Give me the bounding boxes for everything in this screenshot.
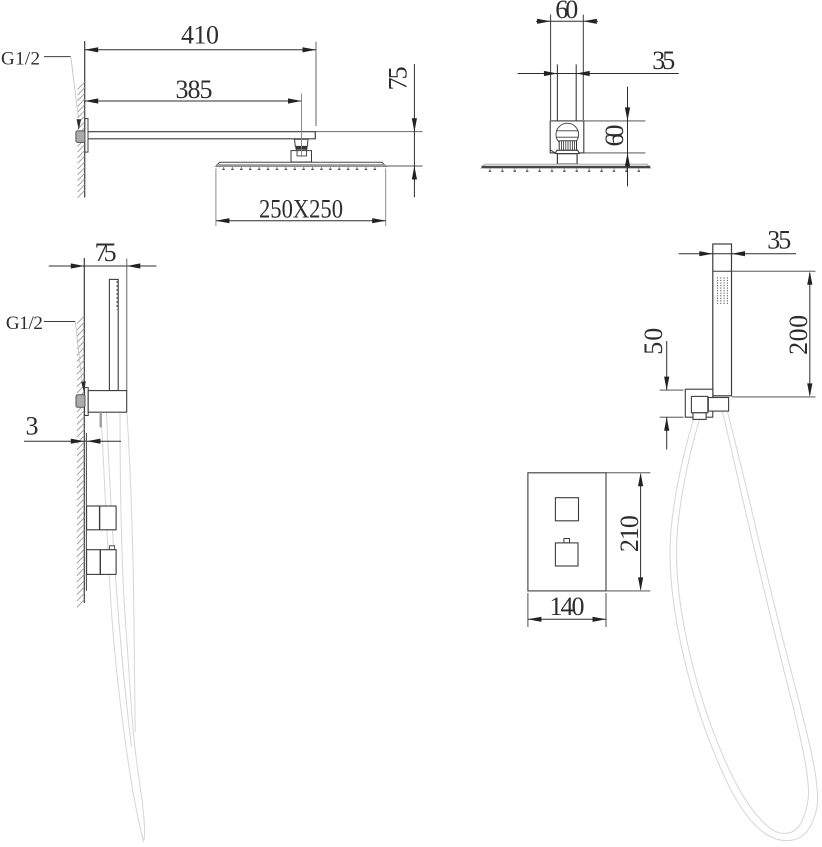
head nozzles (front)	[489, 168, 640, 172]
dimension 50	[666, 341, 668, 450]
dimension 60 extension lines	[551, 15, 584, 121]
svg-text:35: 35	[652, 46, 675, 75]
dimension 410	[85, 49, 316, 51]
holder front face	[691, 396, 707, 412]
dimension 60 (right vertical)	[627, 87, 629, 187]
dimension 3 extension / trim plate edge	[85, 433, 87, 591]
svg-text:50: 50	[639, 328, 668, 355]
dimension 75 (middle)	[49, 265, 157, 267]
wand face line	[713, 270, 732, 272]
flange box	[550, 121, 584, 153]
svg-text:3: 3	[26, 412, 39, 441]
wall hatching	[78, 82, 85, 198]
dimension 75 right extension	[126, 259, 128, 391]
svg-text:60: 60	[555, 0, 578, 24]
svg-text:75: 75	[95, 238, 117, 267]
wall hatching (middle)	[77, 316, 84, 607]
dimension 210 extension lines	[606, 473, 650, 591]
svg-text:210: 210	[615, 515, 644, 552]
base cup inner notch	[297, 151, 307, 156]
hand shower wand (front)	[713, 244, 732, 396]
svg-text:410: 410	[181, 21, 219, 50]
head nozzles	[222, 166, 376, 170]
svg-text:250X250: 250X250	[259, 195, 343, 224]
flange box chamfer	[550, 150, 556, 154]
svg-text:G1/2: G1/2	[6, 313, 43, 334]
shower head plate (side view)	[216, 162, 386, 166]
shower arm (side view)	[88, 132, 315, 139]
wand dashed channel	[116, 281, 118, 310]
dimension 410 extension line	[315, 42, 317, 126]
holder supply elbow (grey)	[76, 395, 85, 408]
hose (middle-left view)	[101, 413, 145, 841]
hose connector below holder	[100, 412, 102, 427]
dimension 140 extension lines	[528, 593, 606, 627]
ball ring lines	[556, 131, 578, 137]
dimension 3	[24, 440, 121, 442]
svg-text:75: 75	[384, 66, 413, 90]
leader arrow	[77, 119, 82, 130]
button 2	[555, 543, 578, 566]
valve knob 1 (side)	[87, 506, 117, 530]
dimension 75 extension (plate bottom)	[386, 165, 423, 167]
button 1	[555, 498, 578, 521]
svg-text:60: 60	[600, 125, 629, 147]
dimension 200	[809, 273, 811, 395]
dimension 200 extension lines	[732, 271, 816, 397]
dimension 385	[85, 100, 302, 102]
connector nut (knurled)	[295, 146, 307, 149]
dimension 250X250	[216, 220, 386, 222]
head connector block	[295, 139, 309, 146]
arm pipe (front)	[557, 64, 576, 131]
svg-text:140: 140	[550, 592, 585, 621]
connector collar	[296, 149, 306, 151]
hose nipple	[693, 413, 706, 420]
extension line (arm top, for 75)	[315, 131, 422, 133]
dimension 60 (right) extension lines	[584, 121, 646, 153]
spray dots grid	[717, 277, 728, 304]
hand shower wand (side)	[109, 279, 118, 390]
holder block (side)	[88, 391, 127, 413]
leader line G1/2 (middle)	[44, 321, 75, 323]
connector base cup	[291, 151, 312, 162]
dimension 385 extension line	[301, 94, 303, 158]
wall line	[84, 41, 86, 198]
dimension 35 (bottom-right)	[679, 253, 796, 255]
leader arrow (middle)	[81, 381, 86, 392]
dimension 35 (top-right)	[518, 73, 679, 75]
svg-text:G1/2: G1/2	[1, 48, 40, 69]
dimension 140	[528, 618, 606, 620]
holder wall plate (middle)	[85, 388, 89, 416]
head connector base (front)	[557, 154, 577, 164]
button 2 tab	[564, 539, 570, 543]
holder bracket (front)	[685, 389, 713, 417]
dimension 210	[640, 475, 642, 590]
wall line (middle)	[83, 258, 85, 603]
wall escutcheon plate	[85, 119, 88, 153]
joint skirt	[555, 150, 579, 153]
supply elbow (grey, behind wall)	[76, 131, 85, 143]
joint nut (knurled)	[559, 141, 576, 151]
ball joint	[556, 123, 579, 146]
holder clamp	[708, 398, 728, 412]
dimension 60 (top)	[536, 20, 598, 22]
dimension 250X250 extension lines	[216, 169, 386, 227]
leader line G1/2	[44, 56, 71, 58]
panel plate	[528, 473, 606, 591]
svg-text:200: 200	[784, 315, 813, 355]
valve knob 2 (side)	[109, 546, 114, 550]
svg-text:35: 35	[767, 226, 791, 255]
svg-text:385: 385	[176, 75, 213, 104]
dimension 50 extension lines	[660, 390, 684, 417]
head plate (front, edge-on)	[481, 164, 650, 168]
hose loop (right view)	[670, 412, 818, 841]
dimension 75 (vertical)	[413, 64, 415, 197]
